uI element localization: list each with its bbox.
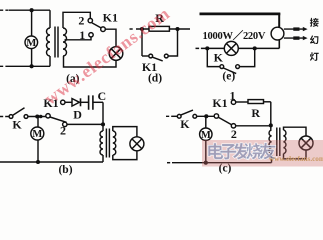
wire contact1 to resistor (c) xyxy=(236,101,248,103)
switch K1 arm (d) xyxy=(153,57,163,61)
node junction dot (b) right xyxy=(101,122,105,126)
wire top rail thick (e) xyxy=(200,13,281,16)
switch K1 contact right (d) xyxy=(164,54,168,58)
node junction dot right (c) xyxy=(269,123,273,127)
switch K arm (e) xyxy=(223,68,236,74)
switch K1 contact left (d) xyxy=(149,54,153,58)
wire primary bottom lead (c) xyxy=(271,154,273,163)
wire left lead (d) dashed xyxy=(130,28,135,30)
wire lamp bottom to secondary (a) xyxy=(64,56,117,67)
pin contact 1 (a) xyxy=(89,33,93,37)
node junction dot (b) xyxy=(35,114,39,118)
motor M (b) xyxy=(31,127,44,140)
label jie (e) xyxy=(310,18,319,27)
watermark pink band xyxy=(202,140,323,167)
transformer T core (c) xyxy=(277,128,280,157)
wire left lead (c) dashed xyxy=(166,115,172,117)
switch K contact right (c) xyxy=(193,114,197,118)
wire top (d) xyxy=(136,28,190,30)
wire capacitor to down branch (b) xyxy=(93,101,103,103)
wire motor branch lower (b) xyxy=(37,140,39,162)
wire primary bottom lead (a) xyxy=(49,56,51,66)
transformer T secondary winding (b) xyxy=(113,131,116,155)
socket plug body (e) xyxy=(271,27,284,40)
wire switch loop right (e) xyxy=(240,48,255,66)
capacitor C (b) xyxy=(89,95,93,109)
wire lamp row dashed lead (e) xyxy=(196,47,202,49)
wire to switch K (c) xyxy=(172,115,178,117)
svg-text:www.elecfans.com: www.elecfans.com xyxy=(269,155,323,163)
svg-text:M: M xyxy=(26,38,36,49)
wire left lead (b) dashed xyxy=(0,116,6,118)
node junction dot (c) xyxy=(204,114,208,118)
switch K contact right (e) xyxy=(236,65,240,69)
svg-text:M: M xyxy=(201,130,211,141)
wire K to K1 (b) xyxy=(28,116,46,118)
diode D (b) xyxy=(72,98,81,106)
wire lamp bottom to secondary (b) xyxy=(113,151,137,160)
wire left branch (d) xyxy=(141,29,143,56)
wire top rail (a) dashed lead xyxy=(0,9,9,11)
svg-text:2: 2 xyxy=(60,123,66,137)
label deng (e) xyxy=(310,52,319,61)
wire K to K1 (c) xyxy=(197,115,215,117)
wire to left switch contact (d) xyxy=(142,55,149,57)
node left junction (d) xyxy=(140,27,144,31)
transformer T secondary winding (c) xyxy=(284,130,286,154)
node junction bottom (c) xyxy=(204,161,208,165)
switch K1 pole contact (c) xyxy=(214,114,218,118)
wire lamp row (e) xyxy=(201,47,279,49)
wire to switch K (b) xyxy=(6,116,9,118)
wire secondary tap 2 (a) xyxy=(63,12,90,28)
switch K1 throw contact 2 (c) xyxy=(231,124,235,128)
wire bottom rail (b) xyxy=(0,161,103,163)
transformer T secondary winding (a) xyxy=(63,28,67,56)
lamp EL (b) xyxy=(130,137,144,151)
transformer T core (b) xyxy=(106,129,109,158)
wire secondary top to lamp (c) xyxy=(284,127,307,136)
resistor R (d) xyxy=(149,26,169,31)
node junction left (e) xyxy=(205,46,209,50)
switch K1 pole contact (a) xyxy=(101,27,106,32)
wire motor branch upper (a) xyxy=(31,10,33,36)
svg-text:2: 2 xyxy=(231,127,237,141)
wire bottom rail dashed lead (c) xyxy=(167,162,172,164)
switch K1 pole contact (b) xyxy=(46,114,50,118)
transformer T primary winding (a) xyxy=(47,28,50,56)
node junction dot top (a) xyxy=(30,8,34,12)
motor M (a) xyxy=(25,36,38,49)
wire socket bottom lead (e) xyxy=(278,40,280,49)
wire rail corner down to socket (e) xyxy=(278,13,280,28)
wire down right branch (c) xyxy=(270,102,272,130)
wire bottom rail (a) dashed lead xyxy=(0,65,6,67)
watermark blue text dianzifashaoyou xyxy=(208,143,223,159)
motor M (c) xyxy=(200,128,212,141)
wire contact2 to junction (b) xyxy=(67,123,103,125)
switch K contact left (e) xyxy=(220,65,224,69)
resistor R (c) xyxy=(248,100,264,104)
transformer T primary winding (c) xyxy=(269,130,271,154)
wire right branch (d) xyxy=(169,29,178,56)
svg-text:C: C xyxy=(97,89,106,103)
wire secondary top to lamp (b) xyxy=(113,127,137,137)
node junction dot bottom (a) xyxy=(30,64,34,68)
wire primary bottom lead (b) xyxy=(102,155,104,162)
pin contact 2 (a) xyxy=(88,18,92,22)
svg-text:K1: K1 xyxy=(212,96,227,110)
label huan (e) xyxy=(310,35,318,44)
svg-text:K: K xyxy=(214,51,224,65)
switch K1 throw contact 1 (c) xyxy=(231,100,235,104)
svg-text:K: K xyxy=(180,117,190,131)
wire switch loop left (e) xyxy=(207,48,220,66)
svg-text:2: 2 xyxy=(78,13,84,27)
svg-text:1: 1 xyxy=(230,88,236,102)
switch K arm (b) xyxy=(13,108,25,115)
svg-text:K1: K1 xyxy=(103,11,118,25)
switch K arm (c) xyxy=(181,110,193,115)
plug pin upper (e) xyxy=(284,27,308,31)
wire secondary tap 1 (a) xyxy=(65,37,92,40)
wire motor branch lower (a) xyxy=(31,49,33,67)
wire down to junction and transformer (b) xyxy=(102,102,104,131)
wire diode to capacitor (b) xyxy=(81,101,88,103)
wire resistor to corner (c) xyxy=(264,101,271,103)
lamp EL 1000W (e) xyxy=(224,41,238,55)
switch K contact left (b) xyxy=(9,115,13,119)
wire motor branch upper (b) xyxy=(37,117,39,128)
wire contact to diode (b) xyxy=(65,101,72,103)
svg-text:R: R xyxy=(251,106,260,120)
transformer T primary winding (b) xyxy=(100,131,103,155)
svg-text:(d): (d) xyxy=(148,73,162,85)
wire contact2 to junction (c) xyxy=(236,125,271,127)
svg-text:(b): (b) xyxy=(58,164,72,176)
wire motor branch upper (c) xyxy=(205,116,207,128)
plug pin lower (e) xyxy=(284,36,308,40)
svg-text:D: D xyxy=(73,107,82,121)
transformer T core (a) xyxy=(55,27,58,58)
lamp EL1 (a) xyxy=(109,47,123,61)
svg-text:1000W／220V: 1000W／220V xyxy=(203,29,266,42)
switch K contact left (c) xyxy=(177,114,181,118)
wire primary top lead (a) xyxy=(49,10,51,28)
svg-text:(e): (e) xyxy=(222,71,235,83)
node junction bottom (b) xyxy=(36,160,40,164)
wire pole to lamp (a) xyxy=(105,29,116,47)
switch K1 arm (b) xyxy=(50,117,67,122)
wire lamp bottom to secondary (c) xyxy=(284,150,307,159)
node right junction (d) xyxy=(175,27,179,31)
svg-text:K: K xyxy=(12,117,22,131)
switch K1 arm (c) xyxy=(218,117,231,124)
switch K1 throw contact 2 (b) xyxy=(63,122,67,126)
node junction dot 2 (b) xyxy=(39,115,43,119)
wire top rail (a) xyxy=(9,9,50,11)
switch K contact right (b) xyxy=(24,115,28,119)
wire motor branch lower (c) xyxy=(205,140,207,162)
lamp EL (c) xyxy=(299,136,313,150)
switch K1 arm (a) xyxy=(92,23,101,28)
switch K1 throw contact top (b) xyxy=(61,100,65,104)
node junction right (e) xyxy=(253,46,257,50)
svg-text:1: 1 xyxy=(79,28,85,42)
wire bottom rail (c) xyxy=(172,162,272,164)
svg-text:M: M xyxy=(32,129,42,140)
wire bottom rail (a) xyxy=(6,65,51,67)
